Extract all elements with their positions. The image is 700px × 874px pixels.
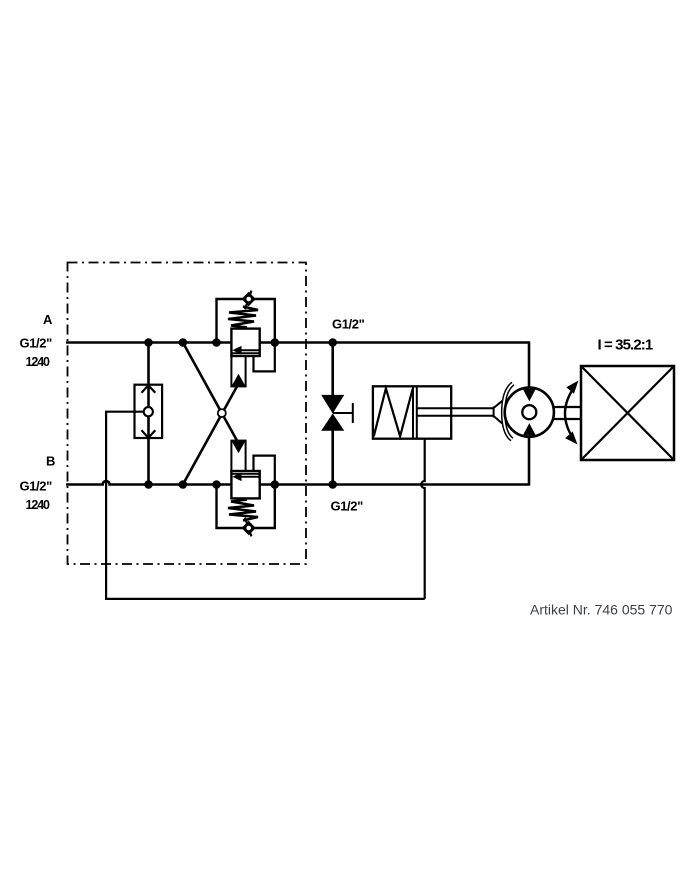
svg-text:Artikel Nr. 746 055 770: Artikel Nr. 746 055 770 [530, 602, 673, 618]
svg-text:A: A [43, 312, 53, 327]
svg-text:G1/2": G1/2" [332, 317, 365, 332]
svg-text:G1/2": G1/2" [20, 336, 53, 351]
svg-text:I = 35.2:1: I = 35.2:1 [598, 337, 653, 354]
svg-text:G1/2": G1/2" [20, 479, 53, 494]
svg-text:B: B [46, 454, 55, 469]
svg-text:1240: 1240 [26, 355, 51, 369]
svg-text:1240: 1240 [26, 498, 51, 512]
svg-text:G1/2": G1/2" [331, 499, 364, 514]
